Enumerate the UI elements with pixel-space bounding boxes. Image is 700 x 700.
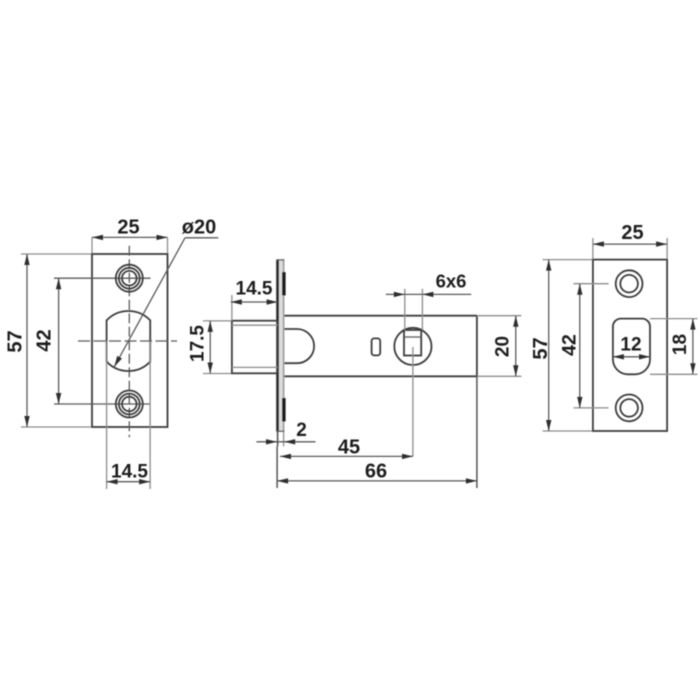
spring box bbox=[284, 329, 314, 363]
svg-text:18: 18 bbox=[670, 334, 691, 355]
latch body top edge bbox=[284, 315, 477, 317]
bottom retaining lug bbox=[282, 398, 286, 422]
faceplate plate outline bbox=[92, 254, 168, 427]
dimension 17.5 (bolt height) bbox=[203, 320, 231, 322]
svg-text:42: 42 bbox=[559, 334, 581, 356]
dimension 18 (cutout height) bbox=[650, 318, 698, 320]
faceplate edge-on front line bbox=[276, 260, 279, 432]
20-dim extension bottom bbox=[477, 375, 522, 377]
dimension 57 (left view) bbox=[21, 253, 91, 255]
bottom screw hole bbox=[616, 395, 643, 422]
dimension 45 (backset) bbox=[280, 455, 413, 457]
horizontal centerline bbox=[78, 340, 177, 342]
svg-text:2: 2 bbox=[296, 420, 307, 441]
latch bolt bbox=[232, 321, 278, 374]
dimension 42 (right view) bbox=[574, 283, 609, 285]
dimension 6x6 (spindle square) bbox=[404, 289, 406, 330]
dimension 57 (right view) bbox=[543, 259, 593, 261]
faceplate bar fill bbox=[279, 260, 284, 432]
svg-text:6x6: 6x6 bbox=[436, 271, 467, 292]
20-dim extension top bbox=[477, 315, 522, 317]
bottom screw hole center tick bbox=[54, 403, 151, 405]
top screw hole bbox=[116, 265, 143, 292]
strike plate outline bbox=[593, 260, 667, 431]
svg-text:57: 57 bbox=[5, 330, 27, 352]
66-dim extension left bbox=[276, 446, 278, 488]
svg-text:57: 57 bbox=[530, 337, 552, 359]
faceplate bottom cap bbox=[276, 430, 284, 432]
bolt chamfer line bottom bbox=[232, 366, 278, 368]
dimension 42 (left view) bbox=[58, 278, 60, 404]
top screw hole center tick bbox=[54, 277, 151, 279]
66-dim extension right bbox=[476, 376, 478, 488]
latch body bottom edge bbox=[284, 375, 477, 377]
faceplate edge-on back line bbox=[283, 260, 285, 432]
spindle hub circle bbox=[394, 328, 431, 365]
svg-text:14.5: 14.5 bbox=[111, 462, 148, 483]
latch body right end bbox=[476, 316, 478, 377]
dimension 25 (left view) bbox=[91, 237, 93, 253]
vertical centerline bbox=[128, 246, 130, 438]
latch cutout bbox=[613, 319, 650, 375]
oval spindle cutout bbox=[107, 311, 151, 371]
top retaining lug bbox=[282, 272, 286, 296]
top screw hole bbox=[616, 270, 643, 297]
square inner line bbox=[404, 336, 421, 338]
svg-text:17.5: 17.5 bbox=[188, 325, 209, 362]
faceplate top cap bbox=[276, 259, 284, 261]
dimension 2 (faceplate thickness) bbox=[277, 431, 279, 446]
svg-text:25: 25 bbox=[621, 222, 643, 244]
svg-text:20: 20 bbox=[493, 336, 514, 357]
dimension 25 (right view) bbox=[592, 238, 594, 259]
45-dim extension from spindle center bbox=[412, 347, 414, 456]
svg-text:42: 42 bbox=[34, 329, 56, 351]
svg-text:45: 45 bbox=[338, 437, 360, 459]
dimension 14.5 (left view, oval width) bbox=[106, 341, 108, 489]
svg-text:66: 66 bbox=[365, 461, 387, 483]
bolt chamfer line top bbox=[232, 324, 278, 326]
small slot bbox=[372, 338, 381, 355]
spindle square hole bbox=[404, 330, 421, 356]
svg-text:25: 25 bbox=[117, 217, 139, 239]
svg-text:12: 12 bbox=[620, 335, 641, 356]
dimension 20 (case height) bbox=[515, 316, 517, 377]
svg-text:ø20: ø20 bbox=[182, 217, 216, 239]
bottom screw hole bbox=[116, 391, 143, 418]
dimension 66 (case length) bbox=[277, 480, 477, 482]
dimension 14.5 (bolt protrusion) bbox=[231, 295, 233, 321]
dimension 12 (cutout width) bbox=[613, 356, 650, 358]
svg-text:14.5: 14.5 bbox=[236, 279, 273, 300]
